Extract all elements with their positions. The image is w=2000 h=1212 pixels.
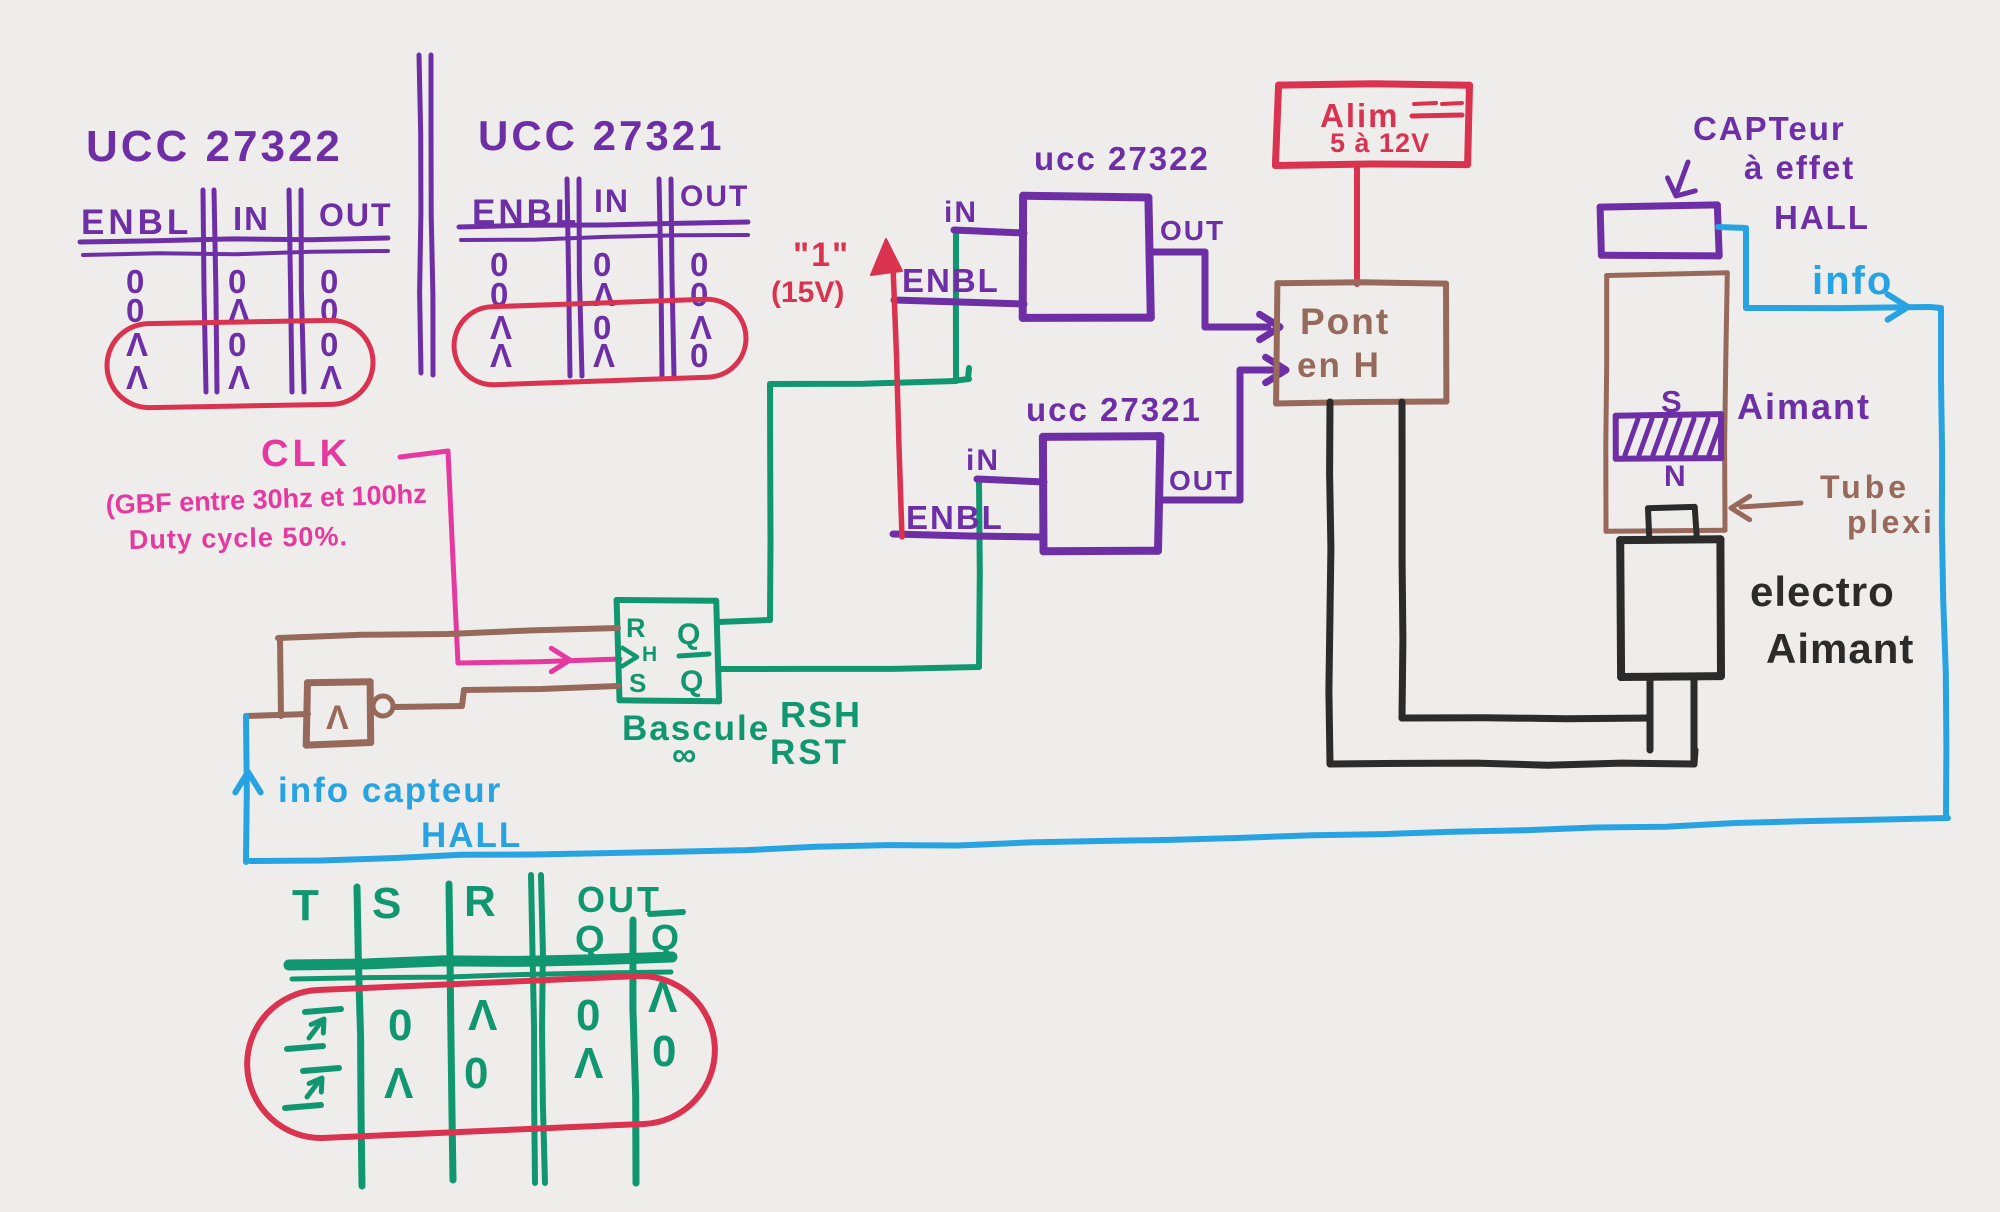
svg-text:Duty cycle 50%.: Duty cycle 50%. [129,521,349,555]
svg-text:S: S [1661,384,1682,419]
svg-text:Λ: Λ [574,1039,604,1088]
svg-text:Λ: Λ [593,276,615,313]
svg-text:CLK: CLK [261,433,351,475]
svg-text:info: info [1812,259,1893,303]
svg-text:IN: IN [233,200,270,237]
svg-text:H: H [642,643,657,666]
svg-text:R: R [626,613,646,643]
svg-text:Λ: Λ [126,326,148,363]
svg-text:Λ: Λ [126,359,148,396]
svg-text:HALL: HALL [421,816,522,855]
svg-text:en H: en H [1297,346,1381,385]
svg-text:0: 0 [464,1049,488,1098]
svg-text:ucc 27321: ucc 27321 [1026,391,1202,428]
svg-text:Λ: Λ [468,991,498,1040]
svg-text:Λ: Λ [593,337,615,374]
svg-text:CAPTeur: CAPTeur [1693,110,1846,147]
svg-text:ENBL: ENBL [902,262,1000,299]
svg-text:Aimant: Aimant [1737,386,1871,427]
svg-text:RST: RST [770,733,849,772]
svg-text:info capteur: info capteur [278,771,502,810]
svg-text:5 à 12V: 5 à 12V [1330,128,1430,158]
svg-text:Pont: Pont [1300,301,1390,342]
svg-text:0: 0 [690,337,708,374]
svg-text:R: R [464,877,496,926]
svg-text:electro: electro [1750,568,1895,615]
svg-text:Λ: Λ [320,359,342,396]
svg-text:N: N [1664,460,1686,493]
svg-text:plexi: plexi [1847,504,1935,540]
svg-text:HALL: HALL [1774,199,1870,236]
svg-text:0: 0 [576,991,600,1040]
svg-text:Q: Q [677,618,700,651]
svg-text:0: 0 [388,1001,412,1050]
svg-text:ENBL: ENBL [906,499,1004,536]
svg-text:IN: IN [594,183,630,219]
svg-text:Λ: Λ [490,337,512,374]
svg-text:S: S [372,879,401,928]
svg-text:ENBL: ENBL [81,203,192,242]
svg-text:∞: ∞ [672,736,696,774]
svg-text:OUT: OUT [1160,215,1225,246]
svg-text:(15V): (15V) [771,276,844,309]
svg-text:RSH: RSH [780,694,862,735]
svg-text:0: 0 [320,326,338,363]
svg-text:OUT: OUT [680,180,749,213]
svg-text:iN: iN [944,196,978,229]
svg-text:Tube: Tube [1820,469,1910,505]
svg-text:iN: iN [966,444,1000,477]
svg-text:0: 0 [320,292,338,329]
svg-text:OUT: OUT [1169,465,1234,496]
svg-text:Λ: Λ [384,1059,414,1108]
svg-text:0: 0 [228,326,246,363]
svg-text:à effet: à effet [1744,149,1855,186]
svg-text:0: 0 [652,1027,676,1076]
svg-text:ucc 27322: ucc 27322 [1034,140,1210,177]
svg-text:"1": "1" [793,236,850,274]
svg-text:0: 0 [690,276,708,313]
svg-text:T: T [292,881,319,930]
svg-text:Aimant: Aimant [1766,625,1914,672]
svg-text:UCC 27321: UCC 27321 [478,112,724,159]
svg-text:OUT: OUT [319,197,393,233]
svg-text:Λ: Λ [326,699,349,737]
svg-text:UCC 27322: UCC 27322 [86,122,343,171]
svg-text:Λ: Λ [228,359,250,396]
svg-text:S: S [629,668,646,698]
svg-text:Q: Q [680,665,703,698]
